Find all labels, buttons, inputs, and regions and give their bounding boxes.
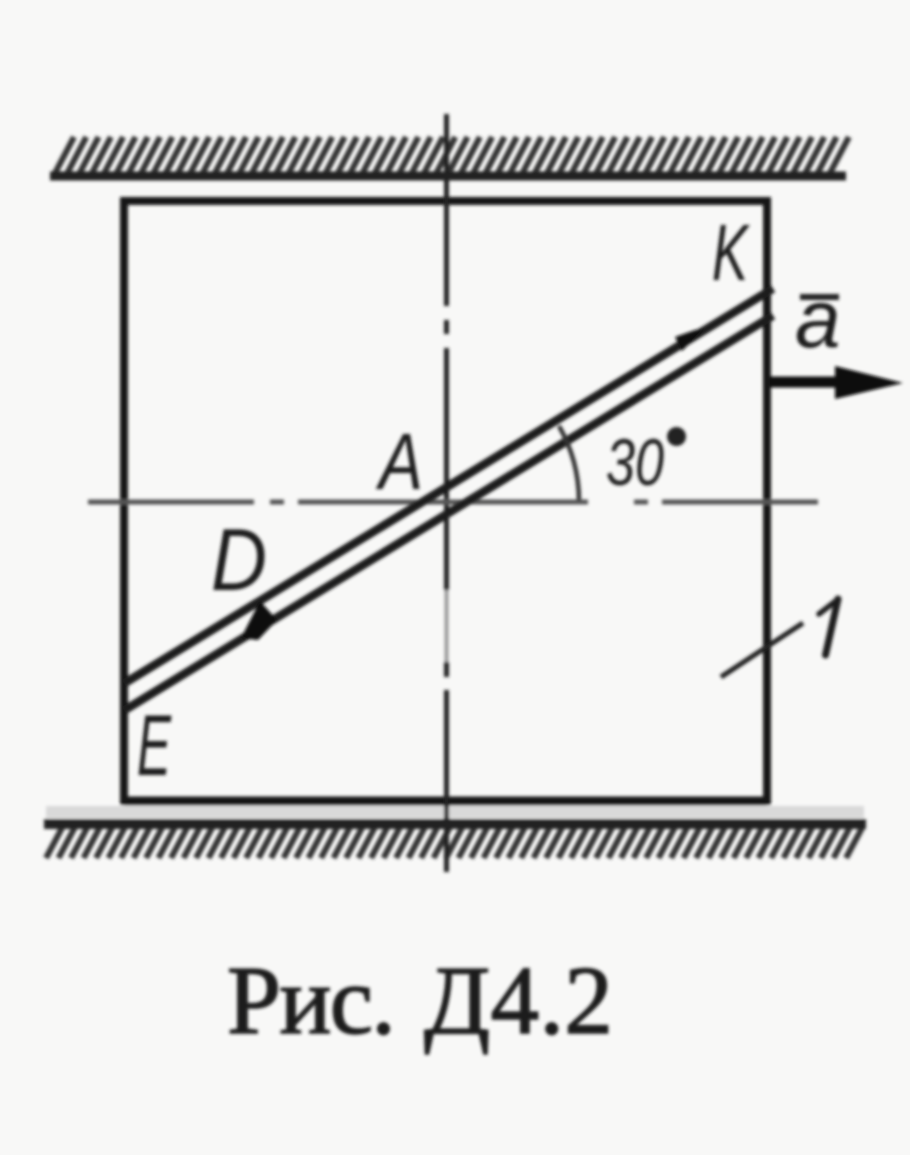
svg-text:K: K [712,208,750,297]
svg-text:a: a [795,274,841,365]
svg-text:A: A [376,417,423,506]
svg-text:D: D [211,510,267,609]
svg-text:E: E [137,698,172,794]
svg-text:30: 30 [606,425,664,499]
svg-text:Рис.: Рис. [227,947,394,1054]
svg-text:Д4.2: Д4.2 [424,947,613,1054]
